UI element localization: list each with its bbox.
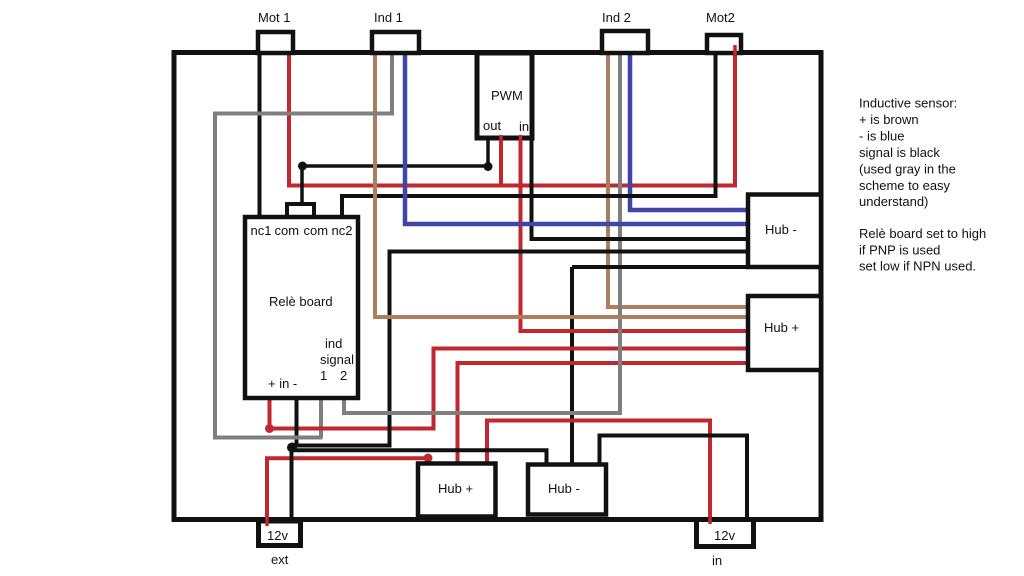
note: inductive sensor legend	[859, 96, 957, 210]
Hub + (bottom)	[418, 464, 496, 517]
svg-text:nc1: nc1	[251, 223, 272, 238]
wire: bottom Hub+ red to right Hub+	[458, 363, 749, 464]
connector Mot 1	[258, 10, 293, 53]
wire: Ind2 gray drop	[618, 53, 622, 413]
svg-text:if PNP is used: if PNP is used	[859, 242, 940, 257]
wire: PWM in red to Hub+	[521, 140, 749, 331]
svg-text:Hub -: Hub -	[548, 481, 580, 496]
Hub - (bottom)	[528, 465, 606, 515]
wire: bottom Hub+ red to 12v in	[487, 421, 710, 520]
wire: red bus Mot1 to Mot2	[289, 53, 735, 186]
junction dot on com wire left	[298, 162, 307, 171]
wire: PWM out red to red bus	[499, 140, 503, 186]
junction dot 12v ext wire end	[424, 454, 433, 463]
svg-text:Hub -: Hub -	[765, 222, 797, 237]
svg-text:scheme to easy: scheme to easy	[859, 178, 951, 193]
wire: bottom Hub- to right Hub- horizontal run	[572, 265, 748, 269]
svg-text:Relè board: Relè board	[269, 294, 333, 309]
svg-text:12v: 12v	[714, 528, 735, 543]
wire: PWM right edge black to Hub-	[532, 140, 749, 239]
connector Mot2	[706, 10, 741, 55]
svg-text:com: com	[304, 223, 329, 238]
wire: Ind1 blue to Hub-	[405, 53, 748, 224]
wire: Ind1 gray leg to rele signal 1	[319, 400, 323, 438]
Hub - (right)	[748, 195, 821, 268]
wire: Ind1 brown to Hub+	[375, 53, 748, 317]
wire: rele in black to Hub-	[297, 252, 751, 446]
Hub + (right)	[748, 296, 821, 370]
wire: bottom Hub- to 12v in black	[600, 436, 748, 520]
wire: bottom Hub- to right Hub- vertical run	[570, 267, 574, 464]
svg-text:nc2: nc2	[332, 223, 353, 238]
wire: rele + red to Hub+	[270, 349, 749, 429]
svg-text:- is blue: - is blue	[859, 129, 905, 144]
wire: Ind2 gray run to rele signal 2	[344, 400, 622, 413]
svg-text:12v: 12v	[267, 528, 288, 543]
svg-text:Inductive sensor:: Inductive sensor:	[859, 96, 957, 111]
wire: frame bottom to bottom Hub- black	[292, 450, 547, 519]
enclosure frame	[174, 53, 821, 520]
svg-text:Hub +: Hub +	[438, 481, 473, 496]
svg-text:Hub +: Hub +	[764, 320, 799, 335]
svg-text:Ind 2: Ind 2	[602, 10, 631, 25]
svg-text:+ in -: + in -	[268, 376, 297, 391]
svg-text:+ is brown: + is brown	[859, 112, 919, 127]
svg-text:understand): understand)	[859, 194, 928, 209]
rele board	[245, 217, 358, 398]
wire: Ind1 gray to rele signal 1	[215, 53, 392, 438]
svg-text:PWM: PWM	[491, 88, 523, 103]
junction dot on com wire right	[484, 162, 493, 171]
connector Ind 2	[602, 10, 648, 53]
PWM controller	[477, 53, 532, 141]
svg-text:Relè board set to high: Relè board set to high	[859, 226, 986, 241]
svg-text:signal is black: signal is black	[859, 145, 940, 160]
svg-text:Ind 1: Ind 1	[374, 10, 403, 25]
svg-text:ext: ext	[271, 552, 289, 567]
svg-text:Mot 1: Mot 1	[258, 10, 291, 25]
svg-text:set low if NPN used.: set low if NPN used.	[859, 259, 976, 274]
svg-text:com: com	[275, 223, 300, 238]
svg-text:in: in	[712, 553, 722, 568]
connector 12v ext	[259, 518, 301, 567]
junction dot rele + corner	[265, 424, 274, 433]
wire: Ind2 brown to Hub+	[608, 53, 748, 307]
wire: 12v ext red to bottom Hub+	[267, 458, 424, 520]
rele board com bump	[287, 204, 314, 217]
svg-text:Mot2: Mot2	[706, 10, 735, 25]
svg-text:signal: signal	[320, 352, 354, 367]
svg-text:ind: ind	[325, 336, 342, 351]
wire: Mot1 black to rele nc1	[258, 53, 262, 215]
svg-text:1: 1	[320, 368, 327, 383]
junction dot frame-to-hub wire	[287, 443, 297, 453]
connector 12v in	[697, 517, 754, 568]
wire: Ind2 blue to Hub-	[630, 53, 748, 210]
connector Ind 1	[372, 10, 419, 53]
wire: Mot2 black to rele nc2	[342, 53, 716, 217]
wire: PWM out black to rele com bump	[302, 140, 488, 206]
svg-text:(used gray in the: (used gray in the	[859, 162, 956, 177]
svg-text:out: out	[483, 118, 501, 133]
svg-text:2: 2	[340, 368, 347, 383]
svg-text:in: in	[519, 119, 529, 134]
note: rele board setting	[859, 226, 986, 274]
